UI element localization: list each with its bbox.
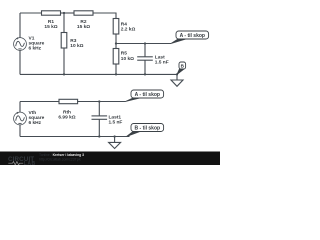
label Last 1.5 nF: [155, 54, 169, 65]
wire: capacitor Last to bottom rail: [144, 60, 146, 74]
svg-text:Rth: Rth: [63, 109, 71, 115]
flag A - til skop (top circuit): [171, 31, 209, 44]
wire: top rail left segment: [20, 12, 42, 14]
svg-text:6.99 kΩ: 6.99 kΩ: [58, 115, 75, 121]
wire: R5 bottom to bottom rail: [115, 64, 117, 74]
label R2 15 kOhm: [77, 19, 90, 30]
svg-text:6 kHz: 6 kHz: [29, 120, 42, 126]
svg-text:10 kΩ: 10 kΩ: [121, 56, 134, 62]
svg-text:B - til skop: B - til skop: [135, 126, 161, 132]
wire: Rth to flag anchor: [78, 101, 126, 103]
svg-text:R5: R5: [121, 50, 127, 56]
wire: top-left vertical from top rail to V1: [19, 13, 21, 38]
ground symbol top circuit: [171, 74, 183, 86]
wire: Vth bottom to bottom rail: [19, 125, 21, 137]
svg-text:15 kΩ: 15 kΩ: [77, 24, 90, 30]
wire: bottom circuit top rail left: [20, 101, 59, 103]
svg-text:http://circuitlab.com/c23TpK: http://circuitlab.com/c23TpK: [39, 158, 82, 162]
svg-text:15 kΩ: 15 kΩ: [44, 24, 57, 30]
wire: V1 bottom to bottom rail: [19, 50, 21, 74]
junction: bottom rail at R5: [115, 73, 117, 75]
wire: R3 bottom to bottom rail: [63, 48, 65, 74]
footer bar: [0, 152, 220, 166]
wire: R2 to top-right corner, down to R4: [93, 13, 116, 19]
svg-text:1.5 nF: 1.5 nF: [109, 119, 123, 125]
wire: capacitor Last1 to bottom rail: [98, 119, 100, 136]
label Last1 1.5 nF: [109, 114, 123, 125]
svg-text:Tonline / Kretser i labøving 3: Tonline / Kretser i labøving 3: [39, 153, 84, 157]
svg-text:R4: R4: [121, 21, 127, 27]
junction: bottom rail at capacitor Last1: [98, 135, 100, 137]
label R1 15 kOhm: [44, 19, 57, 30]
svg-text:2.2 kΩ: 2.2 kΩ: [121, 27, 136, 33]
junction: top rail at capacitor Last1: [98, 100, 100, 102]
wire: bottom rail of top circuit: [20, 73, 177, 75]
label Rth 6.99 kOhm: [58, 109, 75, 120]
label R4 2.2 kOhm: [121, 21, 136, 32]
capacitor Last: [137, 57, 153, 60]
label R3 10 kOhm: [70, 38, 83, 49]
junction: node A at capacitor Last: [144, 42, 146, 44]
ground symbol bottom circuit: [109, 137, 121, 149]
svg-text:R2: R2: [80, 19, 86, 25]
resistor R5: [113, 49, 119, 65]
footer CircuitLab logo: [8, 156, 36, 167]
flag B (top circuit): [177, 62, 186, 74]
wire: R1 to R2 with node: [61, 12, 75, 14]
wire: node A to R5: [115, 44, 117, 49]
voltage source V1: [14, 37, 27, 50]
svg-text:1.5 nF: 1.5 nF: [155, 60, 169, 66]
svg-text:LAB: LAB: [24, 161, 36, 165]
svg-text:A - til skop: A - til skop: [180, 33, 205, 39]
flag A - til skop (bottom circuit): [126, 90, 164, 102]
junction: node A at R4/R5: [115, 42, 117, 44]
junction: bottom rail at R3: [63, 73, 65, 75]
flag B - til skop (bottom circuit): [127, 124, 164, 137]
wire: node down to R3: [63, 13, 65, 33]
capacitor Last1: [92, 116, 108, 119]
junction: bottom rail at capacitor Last: [144, 73, 146, 75]
wire: node A rail: [116, 43, 171, 45]
junction: R1-R2-R3 node: [63, 12, 65, 14]
svg-text:R1: R1: [48, 19, 54, 25]
label R5 10 kOhm: [121, 50, 134, 61]
wire: bottom rail of bottom circuit: [20, 136, 130, 138]
resistor R4: [113, 19, 119, 35]
voltage source Vth: [14, 112, 27, 125]
label Vth: [29, 110, 45, 126]
resistor R2: [74, 11, 93, 15]
svg-text:6 kHz: 6 kHz: [29, 46, 42, 52]
wire: junction down to capacitor Last1: [98, 102, 100, 116]
junction: bottom rail right end node B: [176, 73, 178, 75]
resistor Rth: [59, 99, 78, 103]
footer circuit title text: [39, 153, 84, 161]
svg-text:A - til skop: A - til skop: [135, 92, 160, 98]
svg-text:10 kΩ: 10 kΩ: [70, 43, 83, 49]
resistor R1: [42, 11, 61, 15]
label V1: [29, 36, 45, 52]
junction: bottom rail at ground: [113, 135, 115, 137]
wire: bottom circuit top-left vertical: [19, 102, 21, 113]
svg-text:Last: Last: [155, 54, 165, 60]
wire: R4 bottom to node A rail: [115, 34, 117, 44]
wire: node A down to capacitor Last: [144, 44, 146, 57]
resistor R3: [61, 33, 67, 49]
